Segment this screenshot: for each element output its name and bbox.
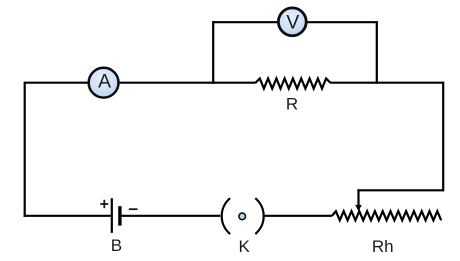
voltmeter V1: body circle — [278, 8, 306, 36]
rheostat wiper: arrow shaft — [357, 189, 359, 206]
battery B: short thick negative plate — [118, 206, 121, 225]
rheostat wiper: arrowhead — [355, 205, 362, 211]
wire: voltmeter branch right vertical — [376, 21, 378, 84]
svg-text:A: A — [98, 72, 111, 93]
wire: bottom horizontal from battery to key K — [122, 215, 221, 217]
battery polarity: minus sign — [129, 208, 138, 210]
rheostat Rh: zigzag winding — [332, 211, 441, 220]
wire: bottom horizontal from key to rheostat — [265, 215, 332, 217]
svg-text:V: V — [286, 13, 299, 34]
resistor R: zigzag — [256, 79, 331, 89]
svg-text:R: R — [286, 95, 298, 114]
key K: left contact arc — [222, 198, 230, 234]
wire: bottom horizontal from left corner to battery — [24, 215, 111, 217]
wire: main top horizontal right of resistor R — [330, 82, 443, 84]
svg-text:Rh: Rh — [372, 237, 394, 256]
svg-text:B: B — [111, 236, 122, 255]
wire: voltmeter branch top horizontal — [213, 21, 377, 23]
wire: right vertical side — [442, 82, 444, 192]
battery polarity: plus sign — [100, 200, 108, 208]
key K: plug dot — [239, 213, 246, 220]
wire: voltmeter branch left vertical — [212, 21, 214, 84]
battery B: long positive plate — [111, 198, 113, 233]
wire: wiper horizontal to right side — [357, 189, 443, 191]
wire: main top horizontal (left node to right node) — [25, 82, 256, 84]
ammeter A1: body circle — [89, 68, 119, 98]
key K: right contact arc — [255, 198, 263, 234]
wire: left vertical side — [24, 82, 26, 217]
svg-text:K: K — [239, 237, 251, 256]
